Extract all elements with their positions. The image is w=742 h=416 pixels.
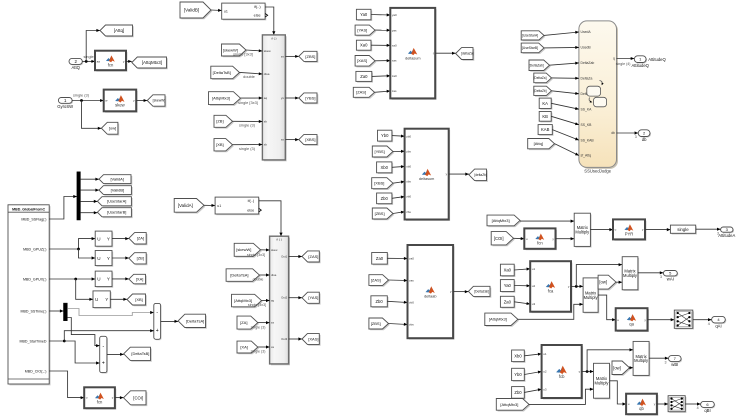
wire DeltaZab to chart [550, 62, 579, 66]
svg-text:GyroSW: GyroSW [57, 104, 73, 109]
svg-text:[deltaZb]: [deltaZb] [474, 173, 487, 177]
svg-text:u2: u2 [532, 284, 536, 288]
if block 2 [215, 197, 261, 215]
svg-text:[YBS]: [YBS] [305, 95, 315, 100]
from [ZA] sub [237, 316, 259, 330]
chart port labels [581, 30, 616, 158]
svg-text:PYR: PYR [625, 231, 634, 236]
svg-text:[XA]: [XA] [240, 345, 248, 350]
wire matmul5 to wBI outport [649, 357, 668, 360]
goto [ZBS] [299, 51, 319, 62]
selector reorder block A [674, 310, 694, 329]
svg-text:Za0: Za0 [376, 256, 384, 261]
svg-text:aa: aa [97, 60, 101, 64]
svg-text:u3: u3 [543, 387, 547, 391]
from [XAS] A [355, 56, 376, 68]
wire AttQ to fcn [82, 60, 95, 63]
svg-text:zb0: zb0 [409, 301, 414, 305]
svg-text:xbs: xbs [406, 180, 411, 184]
svg-text:[XB]: [XB] [135, 297, 143, 302]
from [COI] row1 [491, 232, 515, 247]
svg-text:double: double [253, 278, 264, 282]
svg-text:[AttqMtx3]: [AttqMtx3] [492, 218, 510, 223]
svg-text:[DeltaTsB]: [DeltaTsB] [213, 70, 231, 75]
matlab function deltasum B [405, 129, 451, 221]
wire ow to matmul3 [616, 281, 622, 284]
svg-text:[XBS]: [XBS] [374, 181, 384, 186]
svg-text:MBD_SSFlag(:): MBD_SSFlag(:) [21, 217, 46, 221]
from [UseStarB] [521, 43, 545, 54]
wire reorder B to qBI outport [685, 402, 700, 405]
matrix multiply 3 [622, 257, 639, 291]
svg-text:ys: ys [281, 96, 285, 100]
matrix multiply 5 [633, 341, 650, 376]
wire StarTimeD branch [49, 329, 154, 342]
label single (3) XB [239, 146, 256, 151]
svg-text:q: q [613, 57, 615, 61]
wire XA to subsystem A [258, 345, 270, 348]
svg-text:[ValidB]: [ValidB] [184, 8, 199, 13]
svg-text:yas: yas [392, 28, 397, 32]
wire sum1 to DeltaTsA goto [161, 320, 179, 323]
wire Attq to chart [555, 144, 579, 156]
stateflow icon states [587, 81, 607, 107]
svg-text:[ValidA]: [ValidA] [110, 177, 124, 182]
wire fcn to COI goto [115, 396, 124, 399]
wire Xa0 to deltasum A [371, 44, 390, 47]
label single (3) ZA [251, 325, 266, 329]
wire GPUX to selector4 [76, 279, 93, 301]
wire reorder to qAI outport [693, 318, 712, 321]
wire ZBS to deltasum B [393, 211, 405, 214]
svg-text:fcn: fcn [537, 241, 543, 246]
inport 2 AttQ [69, 58, 83, 70]
label 3 wAI [660, 275, 662, 279]
goto [XB] [127, 294, 147, 306]
wire ZBS to deltaab [389, 323, 408, 326]
svg-text:single (3): single (3) [73, 92, 90, 97]
svg-text:ya0: ya0 [392, 13, 397, 17]
label 4 qAI [708, 322, 710, 326]
svg-text:[AttqMtx3]: [AttqMtx3] [212, 96, 230, 101]
matlab function deltaab [408, 245, 455, 340]
svg-text:u1: u1 [217, 204, 221, 208]
label double B [243, 74, 255, 79]
wire subsystem A Out1 to ZAS [289, 255, 302, 258]
wire GPUZ to selector1 [49, 237, 95, 250]
from [ValidA] if [174, 199, 205, 214]
demux block 1 [77, 172, 81, 220]
wire Za0 to deltasum A [372, 74, 391, 77]
from [YBS] B [372, 146, 394, 158]
svg-text:qb: qb [639, 406, 644, 411]
goto [UseStarB] [97, 208, 132, 218]
if block 1 [222, 3, 268, 20]
svg-text:Za0: Za0 [504, 299, 512, 304]
wire single to AttitudeA outport [696, 228, 721, 231]
svg-text:Out1: Out1 [281, 255, 288, 259]
from [DeltaZa] chart [534, 73, 553, 84]
goto [ValidA] [99, 175, 132, 185]
wire Yb0 to deltasum B [392, 135, 405, 138]
svg-text:3: 3 [635, 135, 637, 139]
from [ZB] [214, 115, 234, 128]
svg-text:SSUsedJudge: SSUsedJudge [584, 169, 611, 174]
svg-text:U: U [97, 277, 100, 282]
goto [ow] [101, 122, 119, 135]
svg-text:if { }: if { } [276, 238, 281, 242]
from [DeltaTsA] sub [226, 269, 261, 283]
svg-text:[ZAS]: [ZAS] [308, 254, 318, 259]
label single (3) gyro [73, 92, 90, 97]
matrix multiply 1 [574, 213, 591, 247]
svg-text:Multiply: Multiply [634, 358, 649, 363]
svg-text:3: 3 [660, 275, 662, 279]
svg-text:fcn: fcn [108, 62, 114, 67]
outport 6 qBI [701, 401, 716, 413]
svg-text:single (3): single (3) [239, 146, 256, 151]
svg-text:[DeltaTsA]: [DeltaTsA] [186, 318, 204, 323]
goto [XA] [129, 274, 147, 285]
wire AttqMtx3 to matmul1 [520, 220, 574, 223]
data type conversion single [670, 225, 696, 234]
wire sum2 to DeltaTsB goto [107, 353, 124, 356]
wire subsystem A Out2 to YAS [289, 296, 302, 299]
svg-text:zas: zas [392, 89, 397, 93]
svg-text:Zb0: Zb0 [381, 196, 389, 201]
matlab function fcn (quaternion to matrix) [95, 51, 127, 72]
svg-text:skew: skew [264, 49, 272, 53]
wire KA to chart [551, 103, 579, 110]
svg-text:if(..): if(..) [254, 5, 261, 9]
wire If2 action to subsystem A [259, 201, 283, 236]
selector reorder block B [668, 396, 686, 413]
constant KB [539, 112, 552, 123]
svg-text:fcb: fcb [559, 374, 565, 379]
label single (4) [84, 54, 101, 59]
data store block MBD_GlobalFromC [8, 205, 51, 386]
wire AttqMtx3 to subsystem A [262, 299, 270, 302]
svg-text:[ow]: [ow] [613, 365, 621, 370]
from [ValidB] [180, 2, 212, 19]
goto [AttqMtx3] [132, 57, 168, 69]
goto [Attq] [100, 25, 134, 37]
wire YAS to deltasum A [375, 29, 390, 32]
svg-text:Out2: Out2 [281, 296, 288, 300]
label 4 qBI [697, 406, 699, 410]
matlab function fcn row1 [524, 228, 557, 250]
wire Yb0 to fcb [524, 371, 541, 375]
wire XBS to deltasum B [393, 181, 405, 184]
svg-text:[AttqMtx3]: [AttqMtx3] [500, 402, 518, 407]
svg-text:[DeltaZb]: [DeltaZb] [534, 89, 547, 93]
demux out to UseStarA [80, 200, 97, 203]
svg-text:+: + [156, 328, 159, 334]
svg-text:[AttqMtx3]: [AttqMtx3] [142, 60, 162, 65]
svg-text:[DeltaZa]: [DeltaZa] [534, 76, 547, 80]
svg-text:single (3): single (3) [251, 350, 266, 354]
svg-text:xb: xb [264, 143, 268, 147]
constant Xa0 [356, 40, 372, 51]
goto [COI] [124, 391, 148, 406]
label single (4) chart [616, 62, 631, 66]
svg-text:MBD_GPUX(:): MBD_GPUX(:) [23, 277, 47, 281]
svg-text:single: single [677, 227, 689, 232]
wire DeltaZb to chart [552, 91, 579, 95]
svg-text:qBI: qBI [704, 408, 710, 413]
svg-text:skew: skew [271, 248, 278, 252]
wire ZAS to deltaab [389, 279, 408, 282]
svg-text:u1: u1 [543, 352, 547, 356]
constant Za0 row2 [500, 296, 515, 308]
wire KAB to chart [552, 130, 579, 141]
constant Zb0 row3 [512, 387, 526, 400]
wire ZA to subsystem A [258, 321, 270, 324]
from [skewW] B [222, 44, 248, 57]
goto [deltaZa] [456, 48, 475, 61]
svg-text:MBD_GPUZ(:): MBD_GPUZ(:) [23, 247, 46, 251]
goto [skewW] [147, 95, 166, 108]
label 3 wBI [665, 360, 667, 364]
selector block ZA [95, 231, 113, 247]
svg-text:[ZB]: [ZB] [137, 256, 144, 261]
svg-text:else: else [254, 14, 261, 18]
wire chart q to AttitudeQ outport [617, 57, 635, 60]
svg-text:skew: skew [115, 103, 126, 108]
label single [3x3] B1 [233, 52, 253, 57]
svg-text:[ow]: [ow] [599, 280, 607, 285]
matlab function skew [104, 90, 138, 113]
svg-text:[AttqMtx3]: [AttqMtx3] [489, 317, 507, 322]
wire Za0 to fca [514, 302, 530, 305]
wire fca branch to matmul3 [576, 263, 622, 286]
svg-text:[DeltaTsA]: [DeltaTsA] [230, 273, 248, 278]
svg-text:KAB: KAB [541, 127, 550, 132]
wire deltasum B to deltaZb [449, 173, 469, 176]
svg-text:UsedA: UsedA [581, 30, 592, 34]
svg-text:[ZBS]: [ZBS] [375, 211, 385, 216]
svg-text:sf_Attq: sf_Attq [581, 154, 592, 158]
svg-text:Multiply: Multiply [623, 273, 638, 278]
wire subsystem B xs to XBS [285, 138, 299, 141]
matlab function fcn COI [84, 387, 116, 409]
label single (3) XA [251, 350, 266, 354]
svg-text:deltasum: deltasum [405, 56, 420, 60]
svg-text:fcn: fcn [97, 400, 103, 405]
svg-text:Xa0: Xa0 [360, 43, 368, 48]
wire selector2 to ZB [112, 256, 129, 259]
wire fcb branch to matmul5 [587, 348, 633, 371]
wire skewW to subsystem B [246, 49, 262, 52]
from [ZAS] A [353, 87, 376, 98]
wire skewW to subsystem A [261, 248, 270, 251]
svg-text:fca: fca [548, 289, 554, 294]
from [XBS] B [372, 178, 395, 190]
svg-text:aq: aq [271, 299, 275, 303]
svg-text:[YAS]: [YAS] [308, 295, 318, 300]
wire Ya0 to fca [514, 284, 530, 287]
svg-text:UsedB: UsedB [581, 46, 592, 50]
svg-text:xa: xa [271, 345, 274, 349]
svg-text:AttitudeQ: AttitudeQ [648, 57, 666, 62]
wire SSFlag to demux [49, 195, 77, 219]
svg-text:u1: u1 [532, 267, 536, 271]
wire COI to fcn row1 [514, 237, 525, 240]
goto [ZAS] [302, 251, 321, 263]
label 3 AttitudeA [717, 232, 719, 236]
svg-text:dtsa: dtsa [271, 273, 277, 277]
svg-text:Ya0: Ya0 [360, 12, 368, 17]
svg-text:[XAS]: [XAS] [308, 336, 318, 341]
wire AttqMtx3 to matmul4 [529, 388, 594, 405]
wire KB to chart [551, 116, 579, 125]
svg-text:[Attq]: [Attq] [534, 141, 543, 146]
outport 1 AttitudeQ [631, 56, 666, 68]
svg-text:KA: KA [542, 101, 548, 106]
label single [3x3] A1 [247, 253, 265, 257]
wire selector3 to XA [112, 277, 129, 280]
svg-text:Yb0: Yb0 [381, 133, 389, 138]
from [AttqMtx3] sub A [232, 294, 263, 308]
selector block ZB [95, 251, 113, 267]
svg-text:[ZAS]: [ZAS] [371, 278, 381, 283]
wire ZB to subsystem B [233, 120, 263, 123]
wire ow to matmul5 [630, 366, 634, 369]
svg-text:zbs: zbs [406, 210, 411, 214]
label single (3) ZB [239, 123, 256, 128]
label single [3x3] A2 [248, 303, 266, 307]
wire fcn row1 to matmul1 [556, 237, 575, 240]
wire matmul4 to qb [610, 381, 627, 406]
svg-text:za0: za0 [409, 257, 414, 261]
svg-text:[ValidA]: [ValidA] [178, 203, 193, 208]
svg-text:[UseStarB]: [UseStarB] [522, 46, 538, 50]
svg-text:za: za [271, 321, 274, 325]
svg-text:DeltaZab: DeltaZab [581, 61, 595, 65]
svg-text:+: + [102, 361, 105, 367]
svg-text:Xb0: Xb0 [380, 165, 388, 170]
goto [XAS] [302, 334, 321, 346]
svg-text:Multiply: Multiply [595, 381, 610, 386]
wire PYR to single conversion [645, 228, 670, 231]
wire SSTime to demux2 [49, 309, 63, 312]
wire skew to skewW goto [136, 99, 147, 102]
wire ValidB to If1 [211, 9, 222, 12]
svg-text:[UseStarA]: [UseStarA] [522, 34, 538, 38]
svg-text:Xb0: Xb0 [514, 353, 522, 358]
svg-text:[ValidB]: [ValidB] [111, 188, 125, 193]
wire Xa0 to fca [514, 268, 530, 271]
svg-text:single (3): single (3) [251, 325, 266, 329]
svg-text:yb0: yb0 [406, 134, 411, 138]
wire GPUZ to selector2 [79, 249, 96, 260]
constant Yb0 row3 [512, 368, 526, 382]
wire DeltaTsB to subsystem B [240, 72, 263, 75]
svg-text:[YBS]: [YBS] [374, 149, 384, 154]
svg-text:Y: Y [107, 236, 110, 241]
svg-text:single [3x3]: single [3x3] [247, 253, 265, 257]
from [ow] row3 [612, 361, 631, 376]
wire UseStarA to chart [544, 31, 579, 36]
wire matmul2 to qa [598, 295, 616, 321]
svg-text:U: U [95, 297, 98, 302]
sum block 2 [100, 336, 108, 373]
wire subsystem B zs to ZBS [285, 55, 299, 58]
svg-text:[ow]: [ow] [109, 126, 116, 131]
wire AttqMtx3 to matmul2 [518, 303, 583, 320]
svg-text:3: 3 [665, 360, 667, 364]
wire matmul1 to PYR [590, 228, 613, 231]
constant KA [539, 98, 552, 110]
wire DeltaTsA to subsystem A [260, 273, 270, 276]
svg-text:[UseStarB]: [UseStarB] [107, 210, 126, 215]
wire Zb0 to fcb [524, 388, 541, 392]
inport 1 GyroSW [57, 98, 73, 109]
svg-text:aq: aq [264, 96, 268, 100]
wire matmul3 to wAI outport [638, 271, 664, 274]
constant Za0 ab [372, 253, 389, 266]
wire branch AttQ up to Attq goto [86, 29, 100, 62]
svg-text:KB: KB [542, 114, 548, 119]
wire subsystem A Out3 to XAS [289, 337, 302, 340]
svg-text:za0: za0 [392, 74, 397, 78]
svg-text:wBI: wBI [671, 362, 678, 367]
svg-text:[DeltaTsB]: [DeltaTsB] [131, 351, 149, 356]
goto [ZB] [129, 253, 148, 266]
goto [YAS] [302, 292, 321, 304]
svg-text:[COI]: [COI] [494, 236, 504, 241]
svg-text:MBD_SSTime(:): MBD_SSTime(:) [20, 309, 46, 313]
svg-text:MBD_StarTimeD: MBD_StarTimeD [19, 339, 46, 343]
wire gyro to skew [72, 99, 104, 102]
wire Za0 to deltaab [387, 257, 407, 260]
svg-text:SS_KA: SS_KA [581, 107, 593, 111]
svg-text:xas: xas [392, 59, 397, 63]
matlab function fca [530, 261, 572, 313]
svg-text:db: db [611, 131, 615, 135]
outport 2 db [638, 130, 651, 142]
wire deltaab to DeltaZab [453, 290, 468, 293]
svg-text:Multiply: Multiply [584, 295, 599, 300]
constant Yb0 [378, 130, 394, 142]
svg-text:single [3x3]: single [3x3] [238, 100, 258, 105]
svg-text:if { }: if { } [271, 36, 276, 40]
outport 7 wBI [669, 356, 683, 368]
svg-text:[XAS]: [XAS] [357, 58, 367, 63]
svg-text:single [3x3]: single [3x3] [233, 52, 253, 57]
svg-text:Ya0: Ya0 [504, 283, 512, 288]
svg-text:[YAS]: [YAS] [357, 28, 367, 33]
wire YBS to deltasum B [393, 150, 405, 153]
from [ZBS] ab [369, 318, 390, 330]
svg-text:[ZBS]: [ZBS] [305, 54, 315, 59]
demux out to ValidB [80, 189, 99, 192]
svg-text:zas: zas [409, 279, 414, 283]
svg-text:[skewW]: [skewW] [236, 247, 251, 252]
svg-text:xs: xs [281, 138, 285, 142]
svg-text:SS_KAB: SS_KAB [581, 138, 595, 142]
wire StarTimeD to sum2 plus [64, 341, 99, 365]
constant Ya0 [356, 9, 372, 21]
svg-text:deltasum: deltasum [419, 177, 434, 181]
outport 5 wAI [663, 271, 678, 282]
svg-text:xb0: xb0 [406, 165, 411, 169]
svg-text:zb: zb [264, 120, 268, 124]
svg-text:[UseStarA]: [UseStarA] [107, 199, 126, 204]
svg-text:SS_KB: SS_KB [581, 123, 593, 127]
svg-text:ybs: ybs [406, 149, 411, 153]
svg-text:zs: zs [281, 55, 285, 59]
